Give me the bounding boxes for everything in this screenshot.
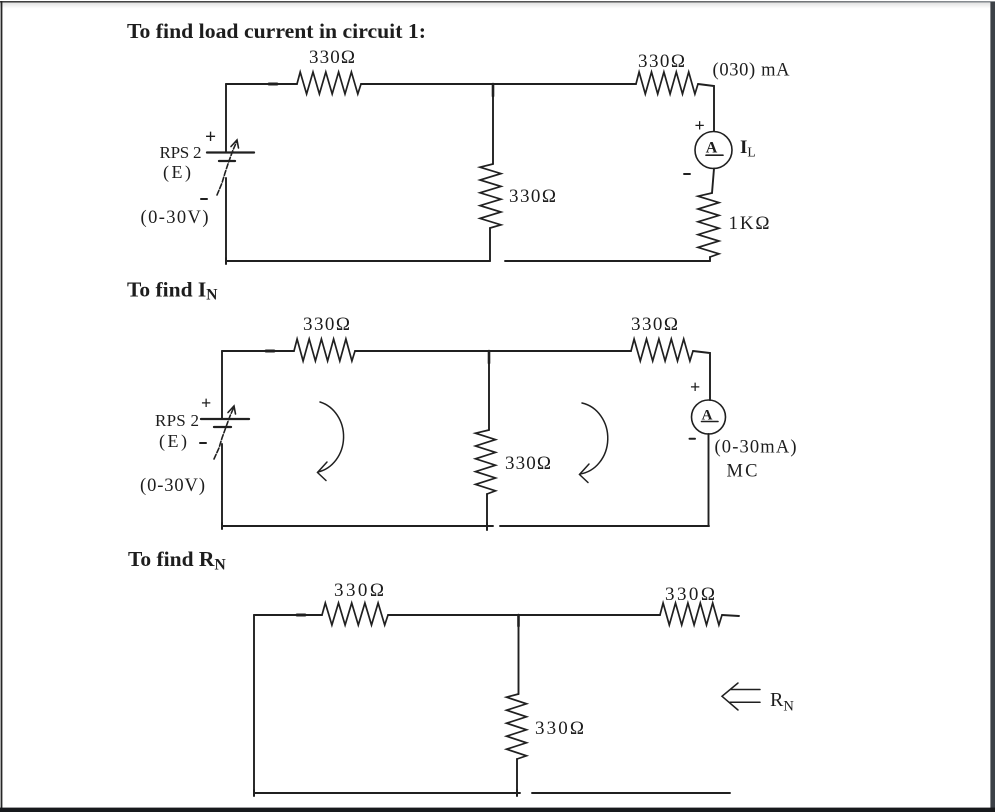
RN arrow [731,689,760,691]
svg-text:330Ω: 330Ω [334,580,384,601]
svg-text:(E): (E) [163,162,191,183]
svg-text:330Ω: 330Ω [309,47,355,68]
svg-text:330Ω: 330Ω [638,51,685,72]
svg-text:(030) mA: (030) mA [713,61,791,81]
svg-text:1KΩ: 1KΩ [729,213,770,234]
node mid-top circuit 3 [517,615,520,626]
wire top-middle circuit 1 [361,83,636,85]
open terminal stub circuit 3 [722,615,739,616]
tick on top wire circuit 3 [297,614,305,617]
resistor R2 circuit 3 [660,603,722,625]
wire 1k to bottom circuit 1 [709,257,711,261]
svg-text:RN: RN [770,689,794,715]
wire top-middle circuit 2 [355,350,631,352]
minus sign ammeter circuit 2 [690,438,696,440]
resistor R1 circuit 1 [297,72,361,94]
svg-text:330Ω: 330Ω [303,314,350,335]
svg-text:330Ω: 330Ω [535,718,584,739]
node bottom-left corner tick circuit 3 [253,790,255,796]
node mid-top circuit 1 [492,84,495,96]
node mid-bottom tick circuit 3 [516,790,518,796]
wire top-right corner circuit 2 [693,351,710,400]
svg-text:+: + [690,377,700,397]
svg-text:330Ω: 330Ω [509,186,556,207]
battery plate short circuit 1 [219,160,235,162]
wire bottom-right circuit 1 [505,260,710,262]
svg-text:+: + [695,116,705,136]
svg-text:(E): (E) [159,431,187,452]
battery plate long circuit 2 [201,418,249,420]
resistor Rmid circuit 2 [476,430,496,494]
resistor Rmid circuit 1 [480,164,501,228]
wire left vertical upper circuit 2 [221,351,223,418]
wire bottom-right circuit 3 [532,792,730,794]
wire top-left circuit 3 [254,614,322,616]
ammeter A1 circuit 1 [695,132,732,169]
wire ammeter to 1k circuit 1 [712,169,714,194]
resistor R2 circuit 1 [636,72,698,94]
node bottom-left corner tick circuit 1 [225,258,227,264]
ammeter A2 circuit 2 [692,400,726,434]
page bottom border [0,808,995,812]
minus sign source circuit 1 [201,198,207,200]
svg-text:330Ω: 330Ω [505,453,551,474]
svg-text:RPS 2: RPS 2 [155,411,199,430]
mesh arrow left circuit 2 [318,402,344,472]
variable arrow circuit 1 [217,141,237,195]
wire left vertical circuit 3 [253,615,255,793]
wire top-middle circuit 3 [388,614,660,616]
battery plate short circuit 2 [214,426,231,428]
svg-text:MC: MC [727,462,758,482]
wire top-left circuit 2 [222,350,294,352]
resistor 1Kohm circuit 1 [698,193,719,257]
wire bottom-left circuit 3 [254,792,520,794]
svg-text:330Ω: 330Ω [665,584,715,605]
wire mid vertical circuit 3 [518,615,520,694]
svg-text:IL: IL [740,137,756,160]
node mid-bottom tick circuit 2 [486,523,488,530]
svg-text:To find RN: To find RN [128,547,226,574]
svg-text:To find IN: To find IN [127,278,217,304]
minus sign source circuit 2 [200,442,206,444]
wire mid-bottom circuit 2 [486,494,488,526]
svg-text:(0-30V): (0-30V) [140,476,205,496]
wire ammeter to bottom circuit 2 [708,434,710,526]
wire mid-bottom circuit 3 [516,759,518,793]
node bottom-left corner tick circuit 2 [221,523,223,529]
battery plate long circuit 1 [207,151,254,153]
wire mid-bottom circuit 1 [489,228,491,261]
svg-text:330Ω: 330Ω [631,314,678,335]
page right border [990,2,995,812]
wire mid vertical circuit 1 [492,84,494,164]
variable arrow circuit 2 [214,407,234,459]
svg-text:(0-30V): (0-30V) [141,208,209,228]
svg-text:+: + [201,393,211,413]
tick on top wire circuit 1 [269,83,277,86]
svg-text:To find load current in circui: To find load current in circuit 1: [127,19,426,43]
node mid-top circuit 2 [488,351,491,363]
resistor Rmid circuit 3 [507,694,527,759]
wire bottom-left circuit 1 [226,260,490,262]
wire bottom-right circuit 2 [500,525,709,527]
wire left vertical lower circuit 2 [221,444,223,526]
page top border [0,0,1,1]
resistor R2 circuit 2 [631,339,693,361]
wire bottom-left circuit 2 [222,525,493,527]
tick on top wire circuit 2 [266,350,274,353]
svg-text:+: + [205,127,216,148]
svg-text:A: A [706,140,718,157]
page left border [1,1,3,810]
wire left vertical upper circuit 1 [225,84,227,152]
resistor R1 circuit 2 [294,339,355,361]
resistor R1 circuit 3 [322,603,388,625]
svg-text:RPS 2: RPS 2 [160,143,202,162]
svg-text:(0-30mA): (0-30mA) [715,438,797,458]
wire left vertical lower circuit 1 [225,178,227,261]
wire top-right corner circuit 1 [698,84,714,131]
minus sign ammeter circuit 1 [684,173,690,175]
wire top-left circuit 1 [226,83,297,85]
mesh arrow right circuit 2 [580,403,608,474]
wire mid vertical circuit 2 [488,351,490,430]
